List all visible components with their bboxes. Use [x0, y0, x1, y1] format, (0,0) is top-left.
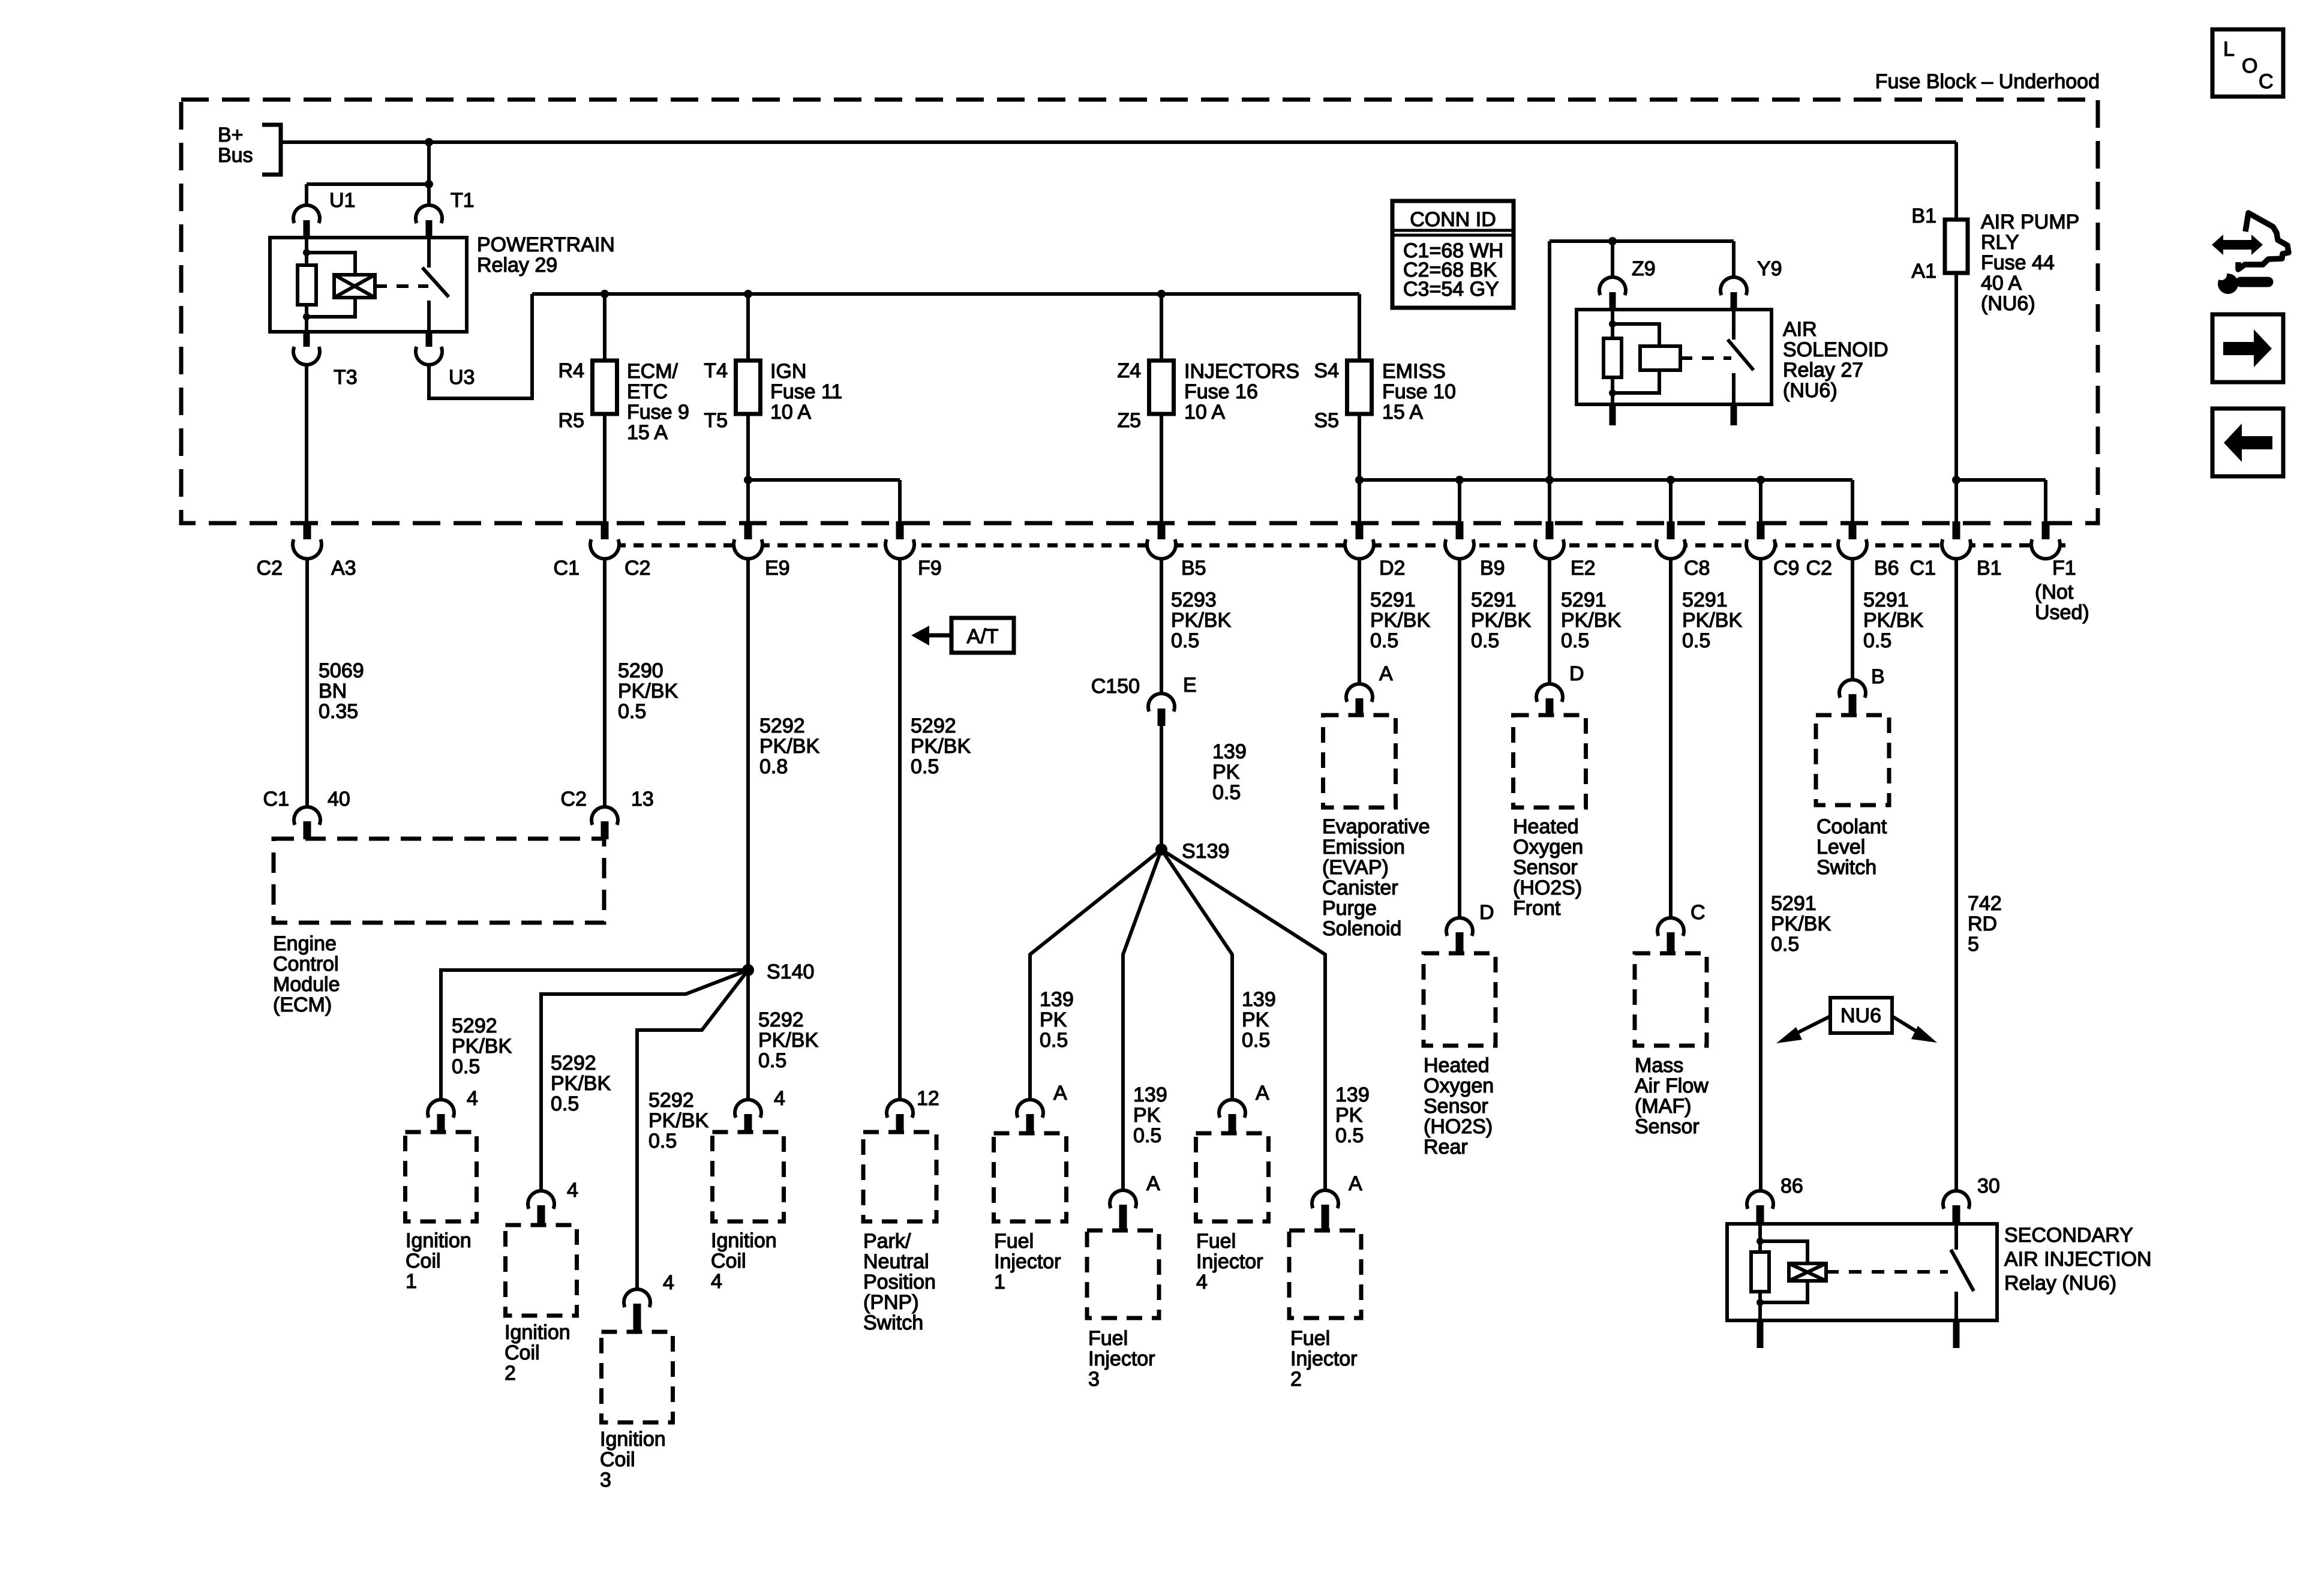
pin stub Z9 [1610, 292, 1616, 310]
svg-text:U3: U3 [449, 366, 475, 389]
connector cup at Mass Air Flow (MAF) Sensor [1658, 918, 1684, 936]
svg-text:E: E [1183, 674, 1197, 697]
svg-text:Sensor: Sensor [1635, 1115, 1700, 1138]
svg-text:PK/BK: PK/BK [758, 1029, 818, 1052]
svg-text:D: D [1479, 901, 1494, 924]
splice S140 [742, 964, 754, 976]
junction to F9 branch [744, 476, 752, 484]
wire C8 down to MAF sensor [1669, 559, 1673, 918]
svg-text:Oxygen: Oxygen [1513, 836, 1583, 858]
component Mass Air Flow (MAF) Sensor dashed box [1635, 953, 1707, 1046]
svg-text:Oxygen: Oxygen [1424, 1074, 1494, 1097]
svg-text:Module: Module [273, 973, 340, 996]
svg-text:E2: E2 [1571, 557, 1596, 580]
connector cup Y9 [1721, 277, 1747, 295]
svg-text:C: C [2259, 70, 2274, 93]
svg-text:Z5: Z5 [1117, 409, 1141, 432]
svg-text:PK: PK [1242, 1008, 1269, 1031]
svg-text:PK/BK: PK/BK [1863, 609, 1923, 632]
CONN ID table [1392, 201, 1514, 308]
svg-text:4: 4 [467, 1087, 478, 1110]
junction to C8 [1667, 476, 1675, 484]
svg-text:0.5: 0.5 [1242, 1029, 1270, 1052]
junction at Fuse 16 [1157, 290, 1166, 298]
connector cup at Fuel Injector 4 [1219, 1100, 1245, 1118]
svg-text:S4: S4 [1314, 359, 1339, 382]
wire down to F1 [2044, 480, 2047, 523]
connector cup at Coolant Level Switch [1839, 680, 1866, 698]
svg-text:RLY: RLY [1981, 231, 2019, 254]
svg-text:SECONDARY: SECONDARY [2004, 1224, 2133, 1247]
bulkhead connector at B6 column x=3088 [1849, 521, 1857, 544]
svg-text:PK/BK: PK/BK [1370, 609, 1430, 632]
svg-text:5292: 5292 [452, 1014, 497, 1037]
svg-text:T4: T4 [704, 359, 728, 382]
relay K2 coil loop and coil box [1613, 324, 1659, 347]
bulkhead connector at F9 column x=1500 [896, 521, 904, 544]
svg-text:B1: B1 [1911, 205, 1936, 227]
svg-text:Coil: Coil [505, 1341, 540, 1364]
svg-text:Emission: Emission [1322, 836, 1405, 858]
svg-text:(ECM): (ECM) [273, 993, 332, 1016]
svg-text:5292: 5292 [759, 715, 805, 737]
svg-text:Ignition: Ignition [600, 1428, 666, 1451]
svg-text:(MAF): (MAF) [1635, 1095, 1691, 1118]
wire ignition feed rail to fuses [532, 292, 1359, 296]
relay K2 body box [1577, 310, 1771, 404]
NU6 callout box with arrows [1830, 998, 1892, 1033]
wire into Fuse 11 [746, 294, 750, 361]
svg-text:Relay 29: Relay 29 [477, 254, 557, 277]
relay K2 actuating dashed link [1680, 356, 1731, 360]
relay K3 body box [1727, 1224, 1997, 1320]
wire S140 to Ignition Coil 3 [637, 970, 748, 1289]
svg-text:0.5: 0.5 [1370, 629, 1398, 652]
pin stub 30 [1953, 1205, 1960, 1224]
wire S139 to Fuel Injector 2 [1161, 849, 1325, 1190]
pin stub U1 [304, 220, 310, 238]
wire B9 down to HO2S rear [1458, 559, 1461, 918]
svg-text:PK/BK: PK/BK [1171, 609, 1231, 632]
wire S140 to Ignition Coil 1 [441, 970, 748, 1100]
bulkhead connector at C2 column x=1008 [601, 521, 609, 544]
LOC legend box [2212, 29, 2283, 97]
wire Fuse 9 to connector C1/C2 [603, 414, 606, 523]
svg-text:T3: T3 [334, 366, 358, 389]
svg-text:4: 4 [774, 1087, 785, 1110]
pin stub U3 [426, 331, 433, 350]
svg-text:Control: Control [273, 953, 339, 975]
svg-text:4: 4 [711, 1270, 722, 1293]
wire down to Z9 [1611, 241, 1614, 277]
svg-text:0.5: 0.5 [758, 1049, 786, 1072]
svg-text:Injector: Injector [1196, 1250, 1263, 1273]
svg-text:139: 139 [1040, 988, 1074, 1011]
svg-text:0.5: 0.5 [1335, 1124, 1364, 1147]
svg-text:1: 1 [994, 1271, 1005, 1293]
svg-text:Y9: Y9 [1757, 257, 1782, 280]
svg-text:0.5: 0.5 [1212, 781, 1241, 804]
svg-text:0.5: 0.5 [1133, 1124, 1161, 1147]
svg-text:Evaporative: Evaporative [1322, 815, 1430, 838]
svg-text:Fuse 44: Fuse 44 [1981, 251, 2055, 274]
svg-text:4: 4 [1196, 1271, 1208, 1293]
svg-text:A/T: A/T [967, 625, 999, 648]
component Fuel Injector 3 dashed box [1087, 1230, 1159, 1318]
junction T1/U1 branch [425, 180, 433, 188]
svg-text:D: D [1569, 662, 1584, 685]
wire B1 down to relay pin 30 [1954, 559, 1958, 1191]
fuse F10 EMISS Fuse 10 15A [1347, 361, 1372, 414]
junction EMISS rail [1355, 476, 1364, 484]
wire B+ down to Fuse 44 [1954, 142, 1958, 220]
wire A3 to ECM C1-40 [305, 559, 309, 807]
wire Fuse 10 down to D2 [1358, 414, 1361, 523]
component Ignition Coil 1 dashed box [406, 1132, 477, 1221]
svg-text:Canister: Canister [1322, 876, 1398, 899]
relay K3 coil loop and solenoid symbol [1760, 1241, 1807, 1265]
relay K3 bottom pin stubs [1757, 1319, 1764, 1348]
svg-text:Ignition: Ignition [505, 1321, 571, 1344]
connector cup pin 86 [1747, 1191, 1773, 1209]
wire down to Y9 [1732, 241, 1736, 277]
svg-text:EMISS: EMISS [1382, 360, 1446, 383]
connector cup at Park/Neutral Position (PNP) Switch [887, 1100, 913, 1118]
svg-text:AIR: AIR [1783, 318, 1817, 341]
svg-text:5292: 5292 [551, 1052, 596, 1074]
svg-text:U1: U1 [329, 189, 355, 212]
svg-text:Solenoid: Solenoid [1322, 917, 1401, 940]
component Fuel Injector 1 dashed box [994, 1133, 1067, 1221]
wire into Fuse 16 [1160, 294, 1163, 361]
svg-text:742: 742 [1968, 892, 2002, 915]
wire down to B9 [1458, 480, 1461, 523]
connector cup at Ignition Coil 2 [528, 1191, 554, 1209]
svg-text:10 A: 10 A [1184, 401, 1225, 424]
svg-text:Heated: Heated [1513, 815, 1579, 838]
svg-text:PK/BK: PK/BK [1771, 912, 1831, 935]
connector cup at Ignition Coil 4 [735, 1100, 761, 1118]
svg-text:(HO2S): (HO2S) [1513, 876, 1582, 899]
wire T3 down to connector C2/A3 [305, 365, 308, 523]
svg-text:5: 5 [1968, 933, 1979, 956]
svg-text:AIR INJECTION: AIR INJECTION [2004, 1248, 2152, 1271]
connector cup ECM pin 40 [294, 807, 320, 825]
component Heated Oxygen Sensor (HO2S) Rear dashed box [1424, 953, 1496, 1046]
svg-text:PK/BK: PK/BK [911, 735, 971, 758]
fuse F11 IGN Fuse 11 10A [736, 361, 761, 414]
svg-text:B: B [1871, 665, 1885, 688]
svg-text:(NU6): (NU6) [1981, 292, 2035, 315]
connector cup Z9 [1599, 277, 1626, 295]
svg-text:0.5: 0.5 [618, 700, 646, 723]
connector cup ECM pin 13 [591, 807, 618, 825]
svg-text:B1: B1 [1977, 557, 2002, 580]
svg-text:4: 4 [567, 1179, 578, 1202]
component Evaporative Emission (EVAP) Canister Purge Solenoid dashed box [1323, 715, 1396, 807]
svg-text:POWERTRAIN: POWERTRAIN [477, 233, 615, 256]
splice S139 [1155, 843, 1167, 855]
wire branch to F1 [1956, 478, 2046, 482]
svg-text:Heated: Heated [1424, 1054, 1490, 1077]
svg-text:PK: PK [1133, 1104, 1161, 1127]
relay K2 bottom pin stubs [1610, 403, 1616, 425]
svg-text:139: 139 [1133, 1083, 1167, 1106]
svg-text:3: 3 [1088, 1368, 1100, 1391]
svg-text:C1: C1 [554, 557, 580, 580]
svg-text:PK: PK [1335, 1104, 1363, 1127]
svg-text:0.5: 0.5 [1682, 629, 1710, 652]
svg-text:PK/BK: PK/BK [618, 680, 678, 703]
svg-text:0.5: 0.5 [452, 1055, 480, 1078]
svg-text:BN: BN [319, 680, 347, 703]
svg-text:0.5: 0.5 [1471, 629, 1499, 652]
svg-text:A: A [1256, 1082, 1269, 1104]
svg-text:AIR PUMP: AIR PUMP [1981, 211, 2079, 233]
svg-text:Z9: Z9 [1632, 257, 1656, 280]
svg-text:5292: 5292 [911, 715, 956, 737]
relay K2 coil resistor [1611, 310, 1614, 340]
svg-text:5291: 5291 [1682, 589, 1728, 611]
component Heated Oxygen Sensor (HO2S) Front dashed box [1514, 715, 1586, 807]
svg-text:B5: B5 [1181, 557, 1206, 580]
svg-text:0.5: 0.5 [1171, 629, 1199, 652]
svg-text:A: A [1349, 1172, 1362, 1195]
wire D2 down to EVAP solenoid [1358, 559, 1361, 684]
svg-text:C2: C2 [561, 788, 587, 810]
svg-text:Sensor: Sensor [1513, 856, 1578, 879]
bulkhead connector at C9 column x=2935 [1757, 521, 1765, 544]
svg-text:13: 13 [631, 788, 654, 810]
svg-text:Air Flow: Air Flow [1635, 1074, 1709, 1097]
svg-text:Injector: Injector [1290, 1347, 1358, 1370]
svg-text:NU6: NU6 [1840, 1004, 1881, 1027]
svg-text:15 A: 15 A [627, 421, 668, 444]
component Park/Neutral Position (PNP) Switch dashed box [863, 1132, 936, 1221]
svg-text:Relay (NU6): Relay (NU6) [2004, 1272, 2116, 1295]
wire U3 to ignition feed rail [429, 294, 532, 398]
junction on B+ bus at T1 column [425, 138, 433, 146]
connector cup at Ignition Coil 3 [624, 1289, 650, 1307]
pin stub Y9 [1731, 292, 1737, 310]
svg-text:0.35: 0.35 [319, 700, 358, 723]
wire relay feed horizontal [1550, 239, 1734, 243]
svg-text:C150: C150 [1091, 675, 1140, 698]
svg-text:1: 1 [406, 1270, 417, 1293]
svg-text:Injector: Injector [1088, 1347, 1155, 1370]
svg-text:139: 139 [1335, 1083, 1370, 1106]
svg-text:S139: S139 [1182, 840, 1229, 863]
svg-text:C3=54 GY: C3=54 GY [1403, 278, 1499, 301]
svg-text:5292: 5292 [758, 1008, 804, 1031]
svg-text:(PNP): (PNP) [863, 1291, 919, 1314]
svg-text:Position: Position [863, 1271, 936, 1293]
A/T reference arrow [951, 618, 1014, 653]
svg-text:3: 3 [600, 1469, 611, 1491]
svg-text:5291: 5291 [1471, 589, 1517, 611]
svg-text:Front: Front [1513, 897, 1561, 920]
fuse F16 INJECTORS Fuse 16 10A [1149, 361, 1174, 414]
svg-text:0.8: 0.8 [759, 755, 788, 778]
wire S140 to Ignition Coil 2 [541, 970, 748, 1191]
svg-text:30: 30 [1977, 1175, 2000, 1197]
wire down to E2 [1548, 480, 1551, 523]
svg-text:PK/BK: PK/BK [759, 735, 819, 758]
svg-text:0.5: 0.5 [1561, 629, 1589, 652]
svg-text:Engine: Engine [273, 932, 337, 955]
bulkhead connector at E2 column x=2583 [1546, 521, 1554, 544]
in-line connector C150 cup [1148, 694, 1175, 712]
svg-text:PK: PK [1212, 761, 1240, 784]
pin stub T3 [304, 331, 310, 350]
junction to E2 [1545, 476, 1554, 484]
svg-text:Coil: Coil [600, 1448, 635, 1471]
wire B6 down to coolant level switch [1851, 559, 1854, 680]
svg-text:139: 139 [1212, 740, 1247, 763]
svg-text:Purge: Purge [1322, 897, 1377, 920]
junction to C9 [1756, 476, 1765, 484]
svg-text:139: 139 [1242, 988, 1276, 1011]
svg-text:4: 4 [663, 1271, 674, 1294]
svg-text:A: A [1053, 1082, 1067, 1104]
wire B+ to relay T1 [427, 142, 431, 205]
connector cup at Heated Oxygen Sensor (HO2S) Rear [1446, 918, 1473, 936]
svg-text:2: 2 [1290, 1368, 1302, 1391]
svg-text:F9: F9 [918, 557, 942, 580]
svg-text:Bus: Bus [218, 144, 253, 167]
bulkhead connector at E9 column x=1247 [744, 521, 752, 544]
svg-text:B9: B9 [1480, 557, 1505, 580]
svg-text:Fuel: Fuel [1290, 1327, 1330, 1350]
svg-text:C2: C2 [1806, 557, 1832, 580]
wire Fuse 44 down to B1 [1954, 273, 1958, 523]
wire down to B6 [1851, 480, 1854, 523]
connector cup at Fuel Injector 2 [1312, 1190, 1338, 1208]
svg-text:C1: C1 [263, 788, 289, 810]
junction at Z9 [1608, 237, 1617, 245]
svg-text:(NU6): (NU6) [1783, 379, 1837, 402]
wire S139 to Fuel Injector 3 [1123, 849, 1161, 1190]
component Ignition Coil 2 dashed box [506, 1225, 577, 1316]
svg-text:C: C [1691, 901, 1706, 924]
connector cup at Ignition Coil 1 [428, 1100, 454, 1118]
relay K2 switch [1732, 310, 1736, 340]
svg-text:Fuse 10: Fuse 10 [1382, 380, 1456, 403]
svg-text:A1: A1 [1911, 260, 1936, 283]
relay K1 body box [270, 238, 467, 332]
svg-text:Z4: Z4 [1117, 359, 1141, 382]
relay K1 coil resistor [305, 238, 308, 266]
Fuse Block - Underhood dashed boundary box [181, 100, 2098, 523]
component Fuel Injector 4 dashed box [1196, 1133, 1269, 1221]
svg-text:Coil: Coil [406, 1250, 441, 1272]
wire down to F9 [898, 480, 902, 523]
bulkhead connector at B9 column x=2433 [1456, 521, 1464, 544]
in-line connector row dotted line [615, 544, 2073, 548]
connector cup at Fuel Injector 1 [1017, 1100, 1043, 1118]
svg-text:Fuse Block – Underhood: Fuse Block – Underhood [1875, 70, 2100, 93]
svg-text:Fuse 9: Fuse 9 [627, 401, 689, 424]
component Coolant Level Switch dashed box [1816, 715, 1889, 805]
svg-text:PK/BK: PK/BK [648, 1109, 708, 1132]
svg-text:Fuel: Fuel [994, 1230, 1034, 1253]
svg-text:Coil: Coil [711, 1250, 746, 1272]
wire E2 column up to relay feed [1548, 241, 1551, 480]
pin stub T1 [426, 220, 433, 238]
bulkhead connector at D2 column x=2266 [1356, 521, 1364, 544]
svg-text:F1: F1 [2052, 557, 2076, 580]
connector cup at Heated Oxygen Sensor (HO2S) Front [1536, 684, 1563, 702]
svg-text:C8: C8 [1684, 557, 1710, 580]
relay K1 coil loop and solenoid symbol [307, 253, 355, 276]
svg-text:5292: 5292 [648, 1089, 694, 1112]
pin stub ECM 13 [601, 821, 609, 839]
svg-text:CONN ID: CONN ID [1410, 208, 1496, 231]
svg-text:Fuel: Fuel [1088, 1327, 1128, 1350]
connector cup U3 [416, 347, 442, 365]
svg-text:T1: T1 [451, 189, 475, 212]
svg-text:5069: 5069 [319, 659, 364, 682]
connector cup T1 [416, 205, 442, 223]
svg-text:0.5: 0.5 [648, 1130, 677, 1152]
svg-text:Ignition: Ignition [711, 1229, 777, 1252]
left arrow box [2212, 409, 2283, 476]
relay K3 actuating dashed link [1826, 1270, 1948, 1274]
wire C150 to S139 [1160, 724, 1163, 846]
wire branch to F9 [748, 478, 900, 482]
svg-text:PK/BK: PK/BK [452, 1035, 512, 1058]
bulkhead connector at A3 column x=512 [304, 521, 311, 544]
svg-text:(HO2S): (HO2S) [1424, 1115, 1493, 1138]
bulkhead connector at B5 column x=1936 [1158, 521, 1166, 544]
wire EMISS distribution rail [1359, 478, 1852, 482]
svg-text:0.5: 0.5 [551, 1092, 579, 1115]
fuse F44 AIR PUMP RLY Fuse 44 40A [1945, 220, 1968, 273]
svg-text:Switch: Switch [1816, 856, 1876, 879]
svg-text:5291: 5291 [1561, 589, 1607, 611]
svg-text:Used): Used) [2035, 601, 2089, 624]
connector cup pin 30 [1943, 1191, 1969, 1209]
svg-text:(EVAP): (EVAP) [1322, 856, 1389, 879]
svg-text:SOLENOID: SOLENOID [1783, 338, 1888, 361]
svg-text:5291: 5291 [1771, 892, 1816, 915]
svg-text:Fuse 16: Fuse 16 [1184, 380, 1258, 403]
svg-text:15 A: 15 A [1382, 401, 1423, 424]
relay K3 switch [1954, 1224, 1958, 1250]
svg-text:S5: S5 [1314, 409, 1339, 432]
wire F9 down to PNP switch [898, 559, 902, 1100]
svg-text:C1: C1 [1910, 557, 1936, 580]
svg-text:Switch: Switch [863, 1311, 923, 1334]
svg-text:INJECTORS: INJECTORS [1184, 360, 1299, 383]
pin stub 86 [1756, 1205, 1764, 1224]
svg-text:Park/: Park/ [863, 1230, 911, 1253]
right arrow box [2212, 314, 2283, 382]
svg-text:Level: Level [1816, 836, 1865, 858]
svg-text:Relay 27: Relay 27 [1783, 359, 1863, 382]
junction at Fuse 9 [600, 290, 609, 298]
svg-text:0.5: 0.5 [911, 755, 939, 778]
svg-text:PK: PK [1040, 1008, 1067, 1031]
svg-text:Ignition: Ignition [406, 1229, 472, 1252]
svg-text:5290: 5290 [618, 659, 663, 682]
svg-text:Mass: Mass [1635, 1054, 1683, 1077]
svg-text:12: 12 [917, 1087, 939, 1110]
relay K1 actuating dashed link [375, 284, 428, 288]
bulkhead connector at C8 column x=2785 [1667, 521, 1675, 544]
component Ignition Coil 4 dashed box [713, 1132, 784, 1221]
junction to B9 [1455, 476, 1464, 484]
